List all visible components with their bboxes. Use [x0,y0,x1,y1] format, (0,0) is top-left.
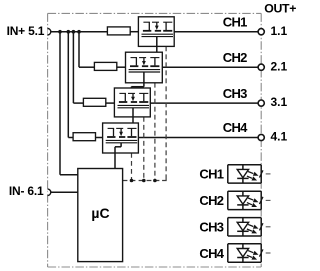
svg-text:CH4: CH4 [199,246,224,261]
svg-text:1.1: 1.1 [271,24,288,38]
LED CH4 outside stub [266,252,271,254]
switch (MOSFET) S1 box [138,17,174,47]
wire rail to CH2 branch [78,32,80,67]
wire rail to CH3 branch [72,32,74,103]
bus junction dot 3 [153,179,157,183]
MOSFET S4 symbol [108,127,115,129]
LED CH2 indicator [228,190,261,192]
svg-text:CH3: CH3 [199,220,223,235]
switch (MOSFET) S2 box [126,52,163,83]
wire R4 to switch S4 [96,137,103,139]
junction dot rail 3 [72,30,76,34]
svg-text:CH2: CH2 [199,193,223,208]
svg-text:4.1: 4.1 [271,130,288,144]
switch (MOSFET) S4 box [103,123,139,153]
LED CH2 border tick [259,197,263,204]
terminal 3.1 (circle on border) [258,100,264,106]
LED CH2 emission arrow 2 [247,203,252,205]
LED CH1 outside stub [266,173,271,175]
LED CH3 emission arrow 1 [248,224,253,226]
LED CH1 emission arrow 2 [247,176,252,178]
svg-text:CH4: CH4 [223,120,248,135]
terminal IN+ 5.1 (semicircle on border) [48,29,51,35]
dashed control line from S1 to uC bus [165,46,167,176]
wire S2 output to terminal 2.1 [162,66,258,68]
svg-text:CH1: CH1 [223,14,247,29]
microcontroller uC box [78,169,123,262]
svg-text:CH3: CH3 [223,86,247,101]
junction dot rail 2 [67,30,71,34]
wire IN- to uC [51,191,78,193]
frame top border (dash-dot) [48,12,262,14]
gate lead S1 down to S2 top [156,37,158,47]
junction dot rail 4 [77,30,81,34]
LED CH4 indicator [228,243,261,245]
LED CH1 emission arrow 1 [248,172,253,174]
wire rail to uC [59,32,61,175]
terminal IN- 6.1 (semicircle on border) [48,189,51,195]
wire R3 to switch S3 [106,102,115,104]
svg-text:OUT+: OUT+ [264,2,296,16]
gate lead S3 down to S4 top [132,108,134,117]
terminal 4.1 (circle on border) [258,134,264,140]
wire rail to CH4 branch [67,32,69,138]
dashed control line from S2 to uC bus [154,83,156,181]
dashed control line from S3 to uC bus [143,117,145,181]
wire R2 to switch S2 [117,66,126,68]
svg-text:2.1: 2.1 [271,59,288,73]
switch (MOSFET) S3 box [114,88,150,117]
wire R1 to switch S1 [130,31,138,33]
frame left border (dash-dot) [47,13,49,267]
svg-text:CH2: CH2 [223,50,247,65]
terminal 2.1 (circle on border) [258,64,264,70]
dashed control line from S4 to uC bus [131,153,133,181]
svg-text:CH1: CH1 [199,167,223,182]
LED CH4 emission arrow 1 [248,251,253,253]
resistor R4 [73,133,95,141]
LED CH4 border tick [259,249,263,256]
LED CH3 indicator [228,217,261,219]
dashed control bus into uC right edge [123,180,163,182]
LED CH2 outside stub [266,199,271,201]
LED CH3 border tick [259,223,263,230]
MOSFET S3 symbol [119,92,126,94]
terminal 1.1 (circle on border) [258,29,264,35]
wire S3 output to terminal 3.1 [150,102,258,104]
svg-text:IN+ 5.1: IN+ 5.1 [7,24,45,38]
LED CH1 border tick [259,170,263,177]
resistor R2 [94,62,116,70]
MOSFET S2 symbol [131,57,138,59]
resistor R1 [107,27,130,35]
frame bottom border (dash-dot) [48,266,262,268]
wire IN+ to resistor R1 [51,31,108,33]
LED CH1 indicator [228,164,261,166]
gate lead S2 with jog to S3 top [143,72,145,83]
wire S4 output to terminal 4.1 [138,137,258,139]
resistor R3 [83,98,105,106]
wire S1 output to terminal 1.1 [174,31,258,33]
LED CH3 outside stub [266,226,271,228]
bus junction dot 1 [130,179,134,183]
svg-text:IN- 6.1: IN- 6.1 [9,184,44,198]
LED CH3 emission arrow 2 [247,229,252,231]
frame right border (dash-dot) [260,13,262,267]
svg-text:3.1: 3.1 [271,95,288,109]
gate lead S4 with jog down to uC top [120,143,122,147]
svg-text:µC: µC [91,205,109,221]
MOSFET S1 symbol [143,21,150,23]
junction dot rail 1 [58,30,62,34]
bus junction dot 2 [142,179,146,183]
LED CH4 emission arrow 2 [247,255,252,257]
LED CH2 emission arrow 1 [248,198,253,200]
